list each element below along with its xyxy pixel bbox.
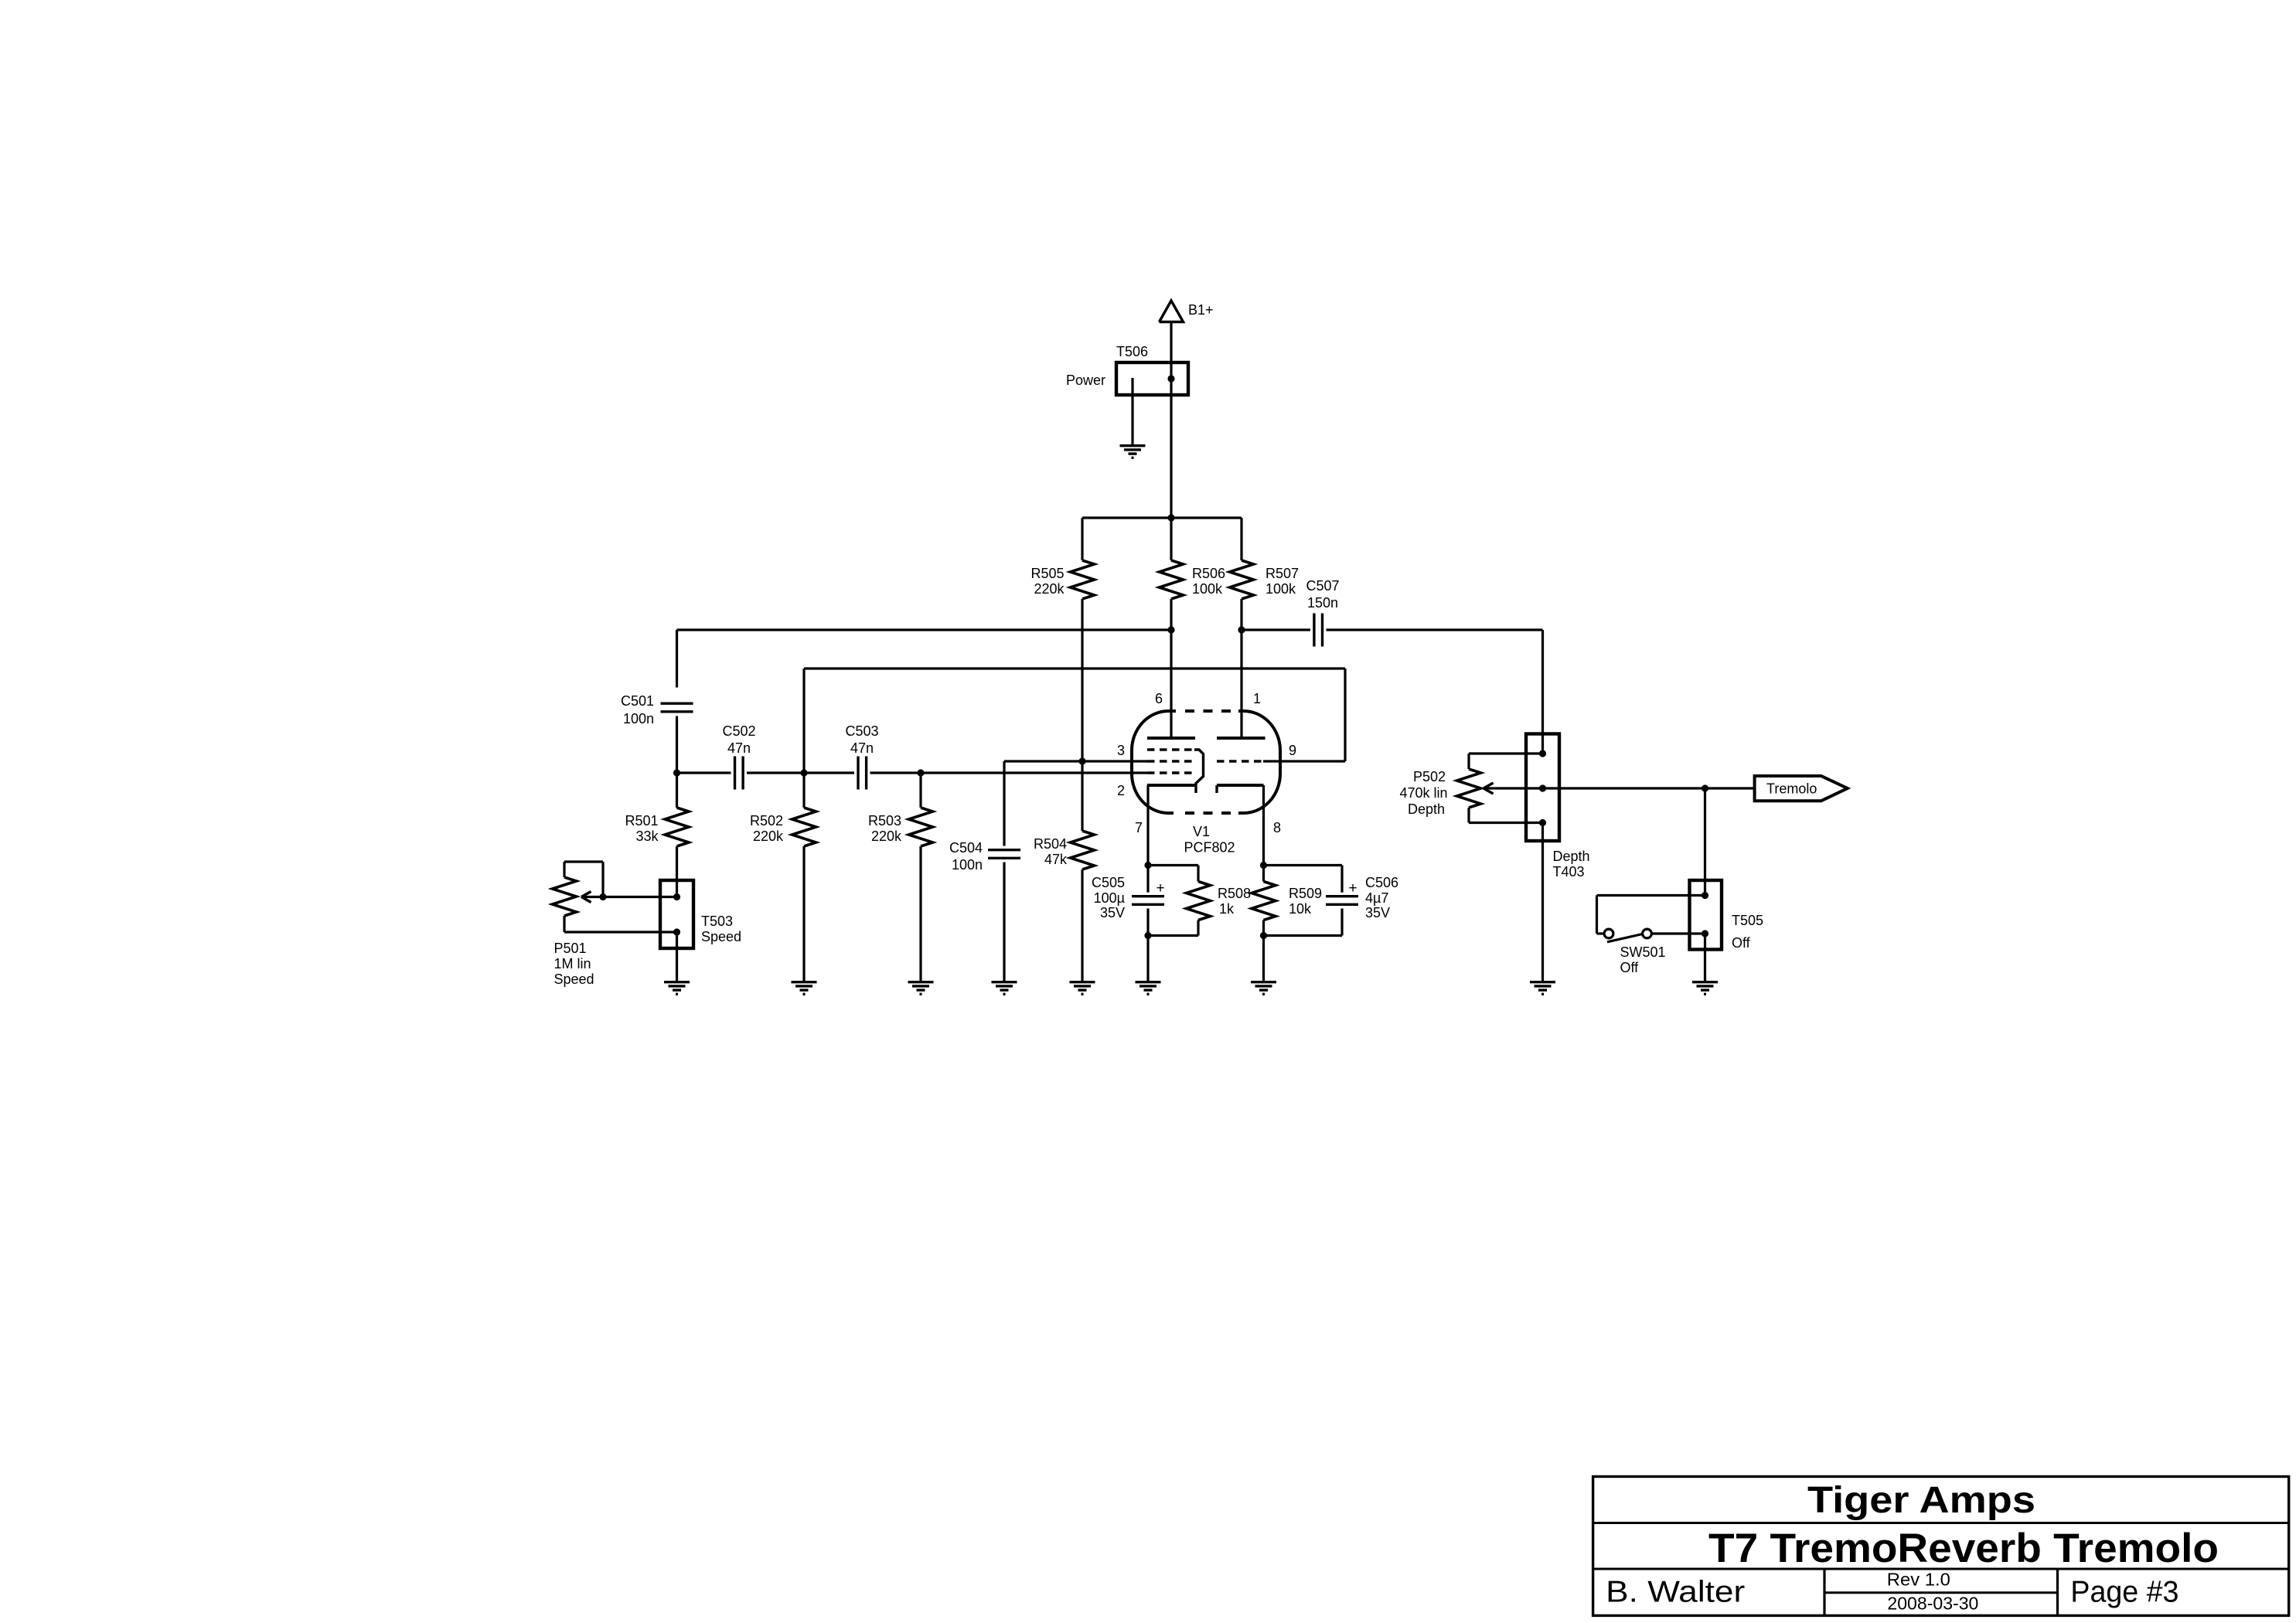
svg-text:R502: R502 — [750, 813, 783, 829]
svg-text:220k: 220k — [871, 829, 902, 844]
wire cathode pin 7 lead — [1146, 785, 1149, 866]
svg-text:Off: Off — [1732, 935, 1751, 951]
resistor R502 220k — [750, 773, 816, 981]
svg-text:Page #3: Page #3 — [2070, 1575, 2178, 1608]
switch SW501 (Off) — [1604, 929, 1665, 975]
svg-text:C503: C503 — [845, 723, 878, 739]
svg-text:220k: 220k — [753, 829, 784, 844]
svg-text:R509: R509 — [1289, 886, 1322, 901]
svg-text:R503: R503 — [868, 813, 901, 829]
terminal T506 (Power) — [1066, 344, 1188, 444]
title text 2008-03-30 — [1887, 1593, 1978, 1613]
wire grid node to tube pin 2 — [921, 771, 1147, 774]
capacitor C503 47n — [845, 723, 878, 790]
tube V1 pin number 6 — [1155, 691, 1163, 706]
terminal T505 (Off) — [1690, 880, 1764, 981]
node: R506 / pin6 / bus — [1167, 626, 1174, 633]
svg-text:R504: R504 — [1034, 836, 1067, 852]
ground under T503 — [664, 982, 690, 995]
svg-text:C507: C507 — [1306, 578, 1339, 594]
potentiometer P501 1M lin Speed — [553, 862, 677, 987]
svg-text:47n: 47n — [727, 740, 751, 756]
wire C505 node to ground — [1146, 936, 1149, 982]
title text Tiger Amps — [1807, 1480, 2035, 1521]
wire C502 to R502 node — [747, 771, 804, 774]
svg-text:Speed: Speed — [554, 971, 594, 987]
svg-text:Rev 1.0: Rev 1.0 — [1887, 1570, 1950, 1590]
wire pin 9 lead — [1263, 760, 1345, 762]
ground under C505/R508 — [1136, 982, 1161, 995]
node: pin3 wire / R505-R504 chain — [1078, 757, 1085, 764]
svg-text:Tiger Amps: Tiger Amps — [1807, 1480, 2035, 1521]
svg-text:33k: 33k — [635, 829, 659, 844]
title text Page #3 — [2070, 1575, 2178, 1608]
svg-text:R508: R508 — [1218, 886, 1251, 901]
ground under R509/C506 — [1251, 982, 1276, 995]
tube V1 pin number 2 — [1117, 783, 1125, 798]
svg-text:+: + — [1156, 880, 1164, 897]
tube V1 triode anode plate (pin 1) — [1217, 737, 1266, 740]
tube V1 type label PCF802 — [1184, 840, 1235, 856]
node: C501 / C502 / R501 — [673, 769, 680, 776]
capacitor C505 100u 35V (electrolytic) — [1092, 866, 1165, 936]
svg-text:R505: R505 — [1030, 566, 1064, 581]
title text B. Walter — [1606, 1576, 1745, 1609]
resistor R505 220k — [1030, 518, 1094, 761]
tube V1 triode cathode bar — [1217, 785, 1264, 793]
svg-text:1k: 1k — [1219, 901, 1235, 917]
resistor R509 10k — [1252, 866, 1322, 936]
svg-text:SW501: SW501 — [1620, 944, 1666, 960]
svg-text:T7 TremoReverb Tremolo: T7 TremoReverb Tremolo — [1708, 1526, 2219, 1571]
wire bus corner down to C501 — [676, 630, 678, 688]
svg-text:Speed: Speed — [701, 929, 741, 944]
tube V1 suppressor-to-cathode hook — [1194, 750, 1204, 793]
svg-text:T505: T505 — [1732, 913, 1763, 928]
wire T505 pin1 to switch — [1597, 896, 1705, 934]
svg-text:P502: P502 — [1413, 769, 1446, 784]
svg-text:470k lin: 470k lin — [1399, 785, 1447, 801]
tube V1 pin number 8 — [1273, 820, 1281, 835]
wire node to C503 — [804, 771, 854, 774]
tube V1 pentode grid rows (dashed) — [1147, 750, 1195, 773]
wire C501 to grid node — [676, 716, 678, 774]
svg-text:9: 9 — [1289, 743, 1296, 758]
terminal T403 (Depth) — [1526, 734, 1590, 982]
svg-text:100µ: 100µ — [1094, 890, 1125, 906]
node: C505 / R508 bottom — [1144, 932, 1151, 939]
svg-text:R507: R507 — [1266, 566, 1299, 581]
node: R509 / C506 bottom — [1260, 932, 1267, 939]
svg-text:C506: C506 — [1365, 875, 1398, 890]
wire anode pin 1 lead — [1240, 630, 1242, 738]
ground under T505 — [1692, 982, 1718, 995]
wire anode pin 6 lead — [1170, 630, 1172, 738]
svg-text:4µ7: 4µ7 — [1365, 890, 1388, 906]
wire bus from C501 top to R506 node — [677, 628, 1172, 631]
tube V1 pin number 1 — [1253, 691, 1261, 706]
svg-text:C501: C501 — [621, 693, 654, 709]
output connector Tremolo — [1755, 776, 1848, 801]
svg-text:1: 1 — [1253, 691, 1261, 706]
wire node to output flag — [1705, 787, 1755, 789]
svg-text:100n: 100n — [952, 857, 983, 873]
svg-text:Depth: Depth — [1408, 801, 1445, 817]
node: R507 / pin1 / C507 bus — [1238, 626, 1245, 633]
svg-text:7: 7 — [1135, 820, 1143, 835]
node: C503 / R503 / tube grid pin 2 — [917, 769, 924, 776]
svg-text:100n: 100n — [623, 711, 654, 726]
ground under R503 — [908, 982, 934, 995]
wire tube pin 3 to C504 — [1004, 760, 1147, 762]
wire C507 to T403 drop — [1327, 628, 1543, 631]
svg-text:10k: 10k — [1289, 901, 1312, 917]
svg-text:1M lin: 1M lin — [554, 956, 591, 971]
capacitor C507 150n — [1306, 578, 1339, 647]
capacitor C504 100n — [949, 761, 1020, 981]
svg-text:47n: 47n — [850, 740, 874, 756]
ground under R504 — [1070, 982, 1095, 995]
svg-text:220k: 220k — [1034, 581, 1065, 597]
title text T7 TremoReverb Tremolo — [1708, 1526, 2219, 1571]
node: tremolo output — [1702, 784, 1708, 791]
terminal T503 (Speed) — [660, 880, 741, 981]
ground under T506 — [1120, 446, 1146, 458]
wire switch to T505 pin2 — [1652, 932, 1705, 934]
wire C503 to R503 node — [870, 771, 921, 774]
svg-text:R506: R506 — [1192, 566, 1225, 581]
svg-text:B1+: B1+ — [1188, 302, 1214, 318]
svg-text:T403: T403 — [1553, 864, 1585, 880]
capacitor C502 47n — [722, 723, 755, 790]
resistor R501 33k — [625, 773, 689, 897]
tube V1 pentode anode plate (pin 6) — [1147, 737, 1195, 740]
wire R507 node to C507 — [1242, 628, 1310, 631]
tube V1 pin number 9 — [1289, 743, 1296, 758]
resistor R507 100k — [1230, 518, 1300, 630]
ground under T403 — [1530, 982, 1555, 995]
svg-text:V1: V1 — [1193, 824, 1210, 839]
tube V1 pentode cathode bar — [1147, 784, 1195, 787]
svg-text:100k: 100k — [1266, 581, 1296, 597]
wire R509 node to ground — [1262, 936, 1265, 982]
title block frame — [1593, 1477, 2289, 1616]
potentiometer P502 470k lin Depth — [1399, 754, 1542, 823]
svg-text:3: 3 — [1117, 743, 1125, 758]
svg-text:8: 8 — [1273, 820, 1281, 835]
svg-text:35V: 35V — [1365, 905, 1390, 920]
node: pin7 / C505 / R508 — [1144, 862, 1151, 869]
node: pin8 / R509 / C506 — [1260, 862, 1267, 869]
svg-text:35V: 35V — [1100, 905, 1125, 920]
svg-text:C505: C505 — [1092, 875, 1125, 890]
wire top bus — [1082, 516, 1242, 519]
tube V1 reference designator label — [1193, 824, 1210, 839]
svg-text:Off: Off — [1620, 960, 1640, 975]
tube V1 pin number 3 — [1117, 743, 1125, 758]
resistor R506 100k — [1160, 518, 1226, 630]
svg-text:PCF802: PCF802 — [1184, 840, 1235, 856]
wire tremolo node down to T505 — [1704, 788, 1706, 896]
power symbol B1+ (triangle) — [1160, 301, 1214, 322]
resistor R508 1k — [1148, 866, 1251, 936]
wire cathode pin 8 lead — [1262, 785, 1265, 866]
svg-text:C502: C502 — [722, 723, 755, 739]
ground under C504 — [992, 982, 1017, 995]
node: C502 / C503 / R502 / feedback — [800, 769, 807, 776]
svg-text:100k: 100k — [1192, 581, 1223, 597]
svg-text:B. Walter: B. Walter — [1606, 1576, 1745, 1609]
node: B1+ / top bus junction — [1167, 514, 1174, 521]
svg-text:2: 2 — [1117, 783, 1125, 798]
resistor R504 47k — [1034, 761, 1095, 981]
svg-text:C504: C504 — [949, 840, 983, 856]
tube V1 pin number 7 — [1135, 820, 1143, 835]
svg-text:P501: P501 — [554, 941, 587, 956]
svg-text:150n: 150n — [1307, 595, 1338, 611]
capacitor C501 100n — [621, 693, 693, 726]
svg-text:Power: Power — [1066, 373, 1105, 388]
svg-text:R501: R501 — [625, 813, 658, 829]
svg-text:Depth: Depth — [1553, 849, 1590, 864]
wire wiper to tremolo node — [1543, 787, 1705, 789]
svg-text:T506: T506 — [1116, 344, 1148, 359]
wire drop to T403 — [1541, 630, 1544, 754]
resistor R503 220k — [868, 773, 933, 981]
tube V1 triode grid row pin 9 (dashed) — [1217, 760, 1263, 762]
wire node to C502 — [677, 771, 731, 774]
title text Rev 1.0 — [1887, 1570, 1950, 1590]
svg-text:2008-03-30: 2008-03-30 — [1887, 1593, 1978, 1613]
svg-text:Tremolo: Tremolo — [1766, 781, 1817, 797]
wire pin9 feedback bus — [804, 669, 1345, 773]
svg-text:6: 6 — [1155, 691, 1163, 706]
tube V1 PCF802 envelope — [1132, 707, 1280, 817]
svg-text:47k: 47k — [1044, 852, 1068, 867]
svg-text:+: + — [1348, 880, 1357, 897]
wire B1+ down to terminal T506 — [1170, 322, 1172, 519]
capacitor C506 4u7 35V (electrolytic) — [1264, 866, 1399, 936]
ground under R502 — [792, 982, 817, 995]
svg-text:T503: T503 — [701, 914, 733, 929]
